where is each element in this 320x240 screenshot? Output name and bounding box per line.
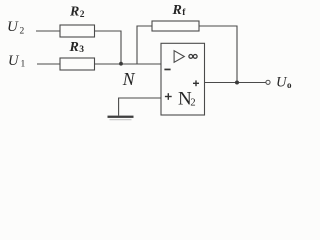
svg-text:U: U (8, 53, 20, 69)
wire Rf left leg (137, 26, 152, 64)
op-amp infinity symbol (189, 55, 197, 59)
wire plus input to ground (119, 98, 161, 116)
svg-text:R: R (69, 5, 79, 20)
minus input pin label (164, 69, 170, 71)
plus output marking (193, 80, 199, 86)
svg-text:N: N (122, 69, 136, 89)
svg-text:3: 3 (79, 45, 84, 55)
ground (108, 116, 134, 121)
wire R2 output (95, 31, 122, 64)
output wire (205, 82, 266, 84)
svg-text:1: 1 (21, 60, 26, 70)
plus input pin label (165, 93, 172, 100)
op-amp N2 box (161, 43, 205, 115)
resistor Rf (152, 21, 199, 31)
wire R3 to op-amp inverting input (95, 63, 162, 65)
svg-text:f: f (182, 8, 186, 18)
svg-text:R: R (69, 40, 79, 55)
node N junction dot (119, 62, 123, 66)
svg-text:2: 2 (20, 27, 25, 37)
svg-text:R: R (172, 3, 182, 18)
svg-text:o: o (287, 80, 292, 90)
resistor R2 (60, 25, 95, 37)
svg-text:U: U (7, 19, 19, 35)
wire from U2 to R2 (36, 30, 60, 32)
output junction dot (235, 81, 239, 85)
op-amp gain triangle (174, 51, 184, 63)
resistor R3 (60, 58, 95, 70)
svg-text:2: 2 (190, 98, 195, 109)
wire Rf right leg feedback (199, 26, 237, 83)
output terminal circle (266, 80, 270, 84)
svg-text:2: 2 (80, 10, 85, 20)
wire from U1 to R3 (37, 63, 60, 65)
